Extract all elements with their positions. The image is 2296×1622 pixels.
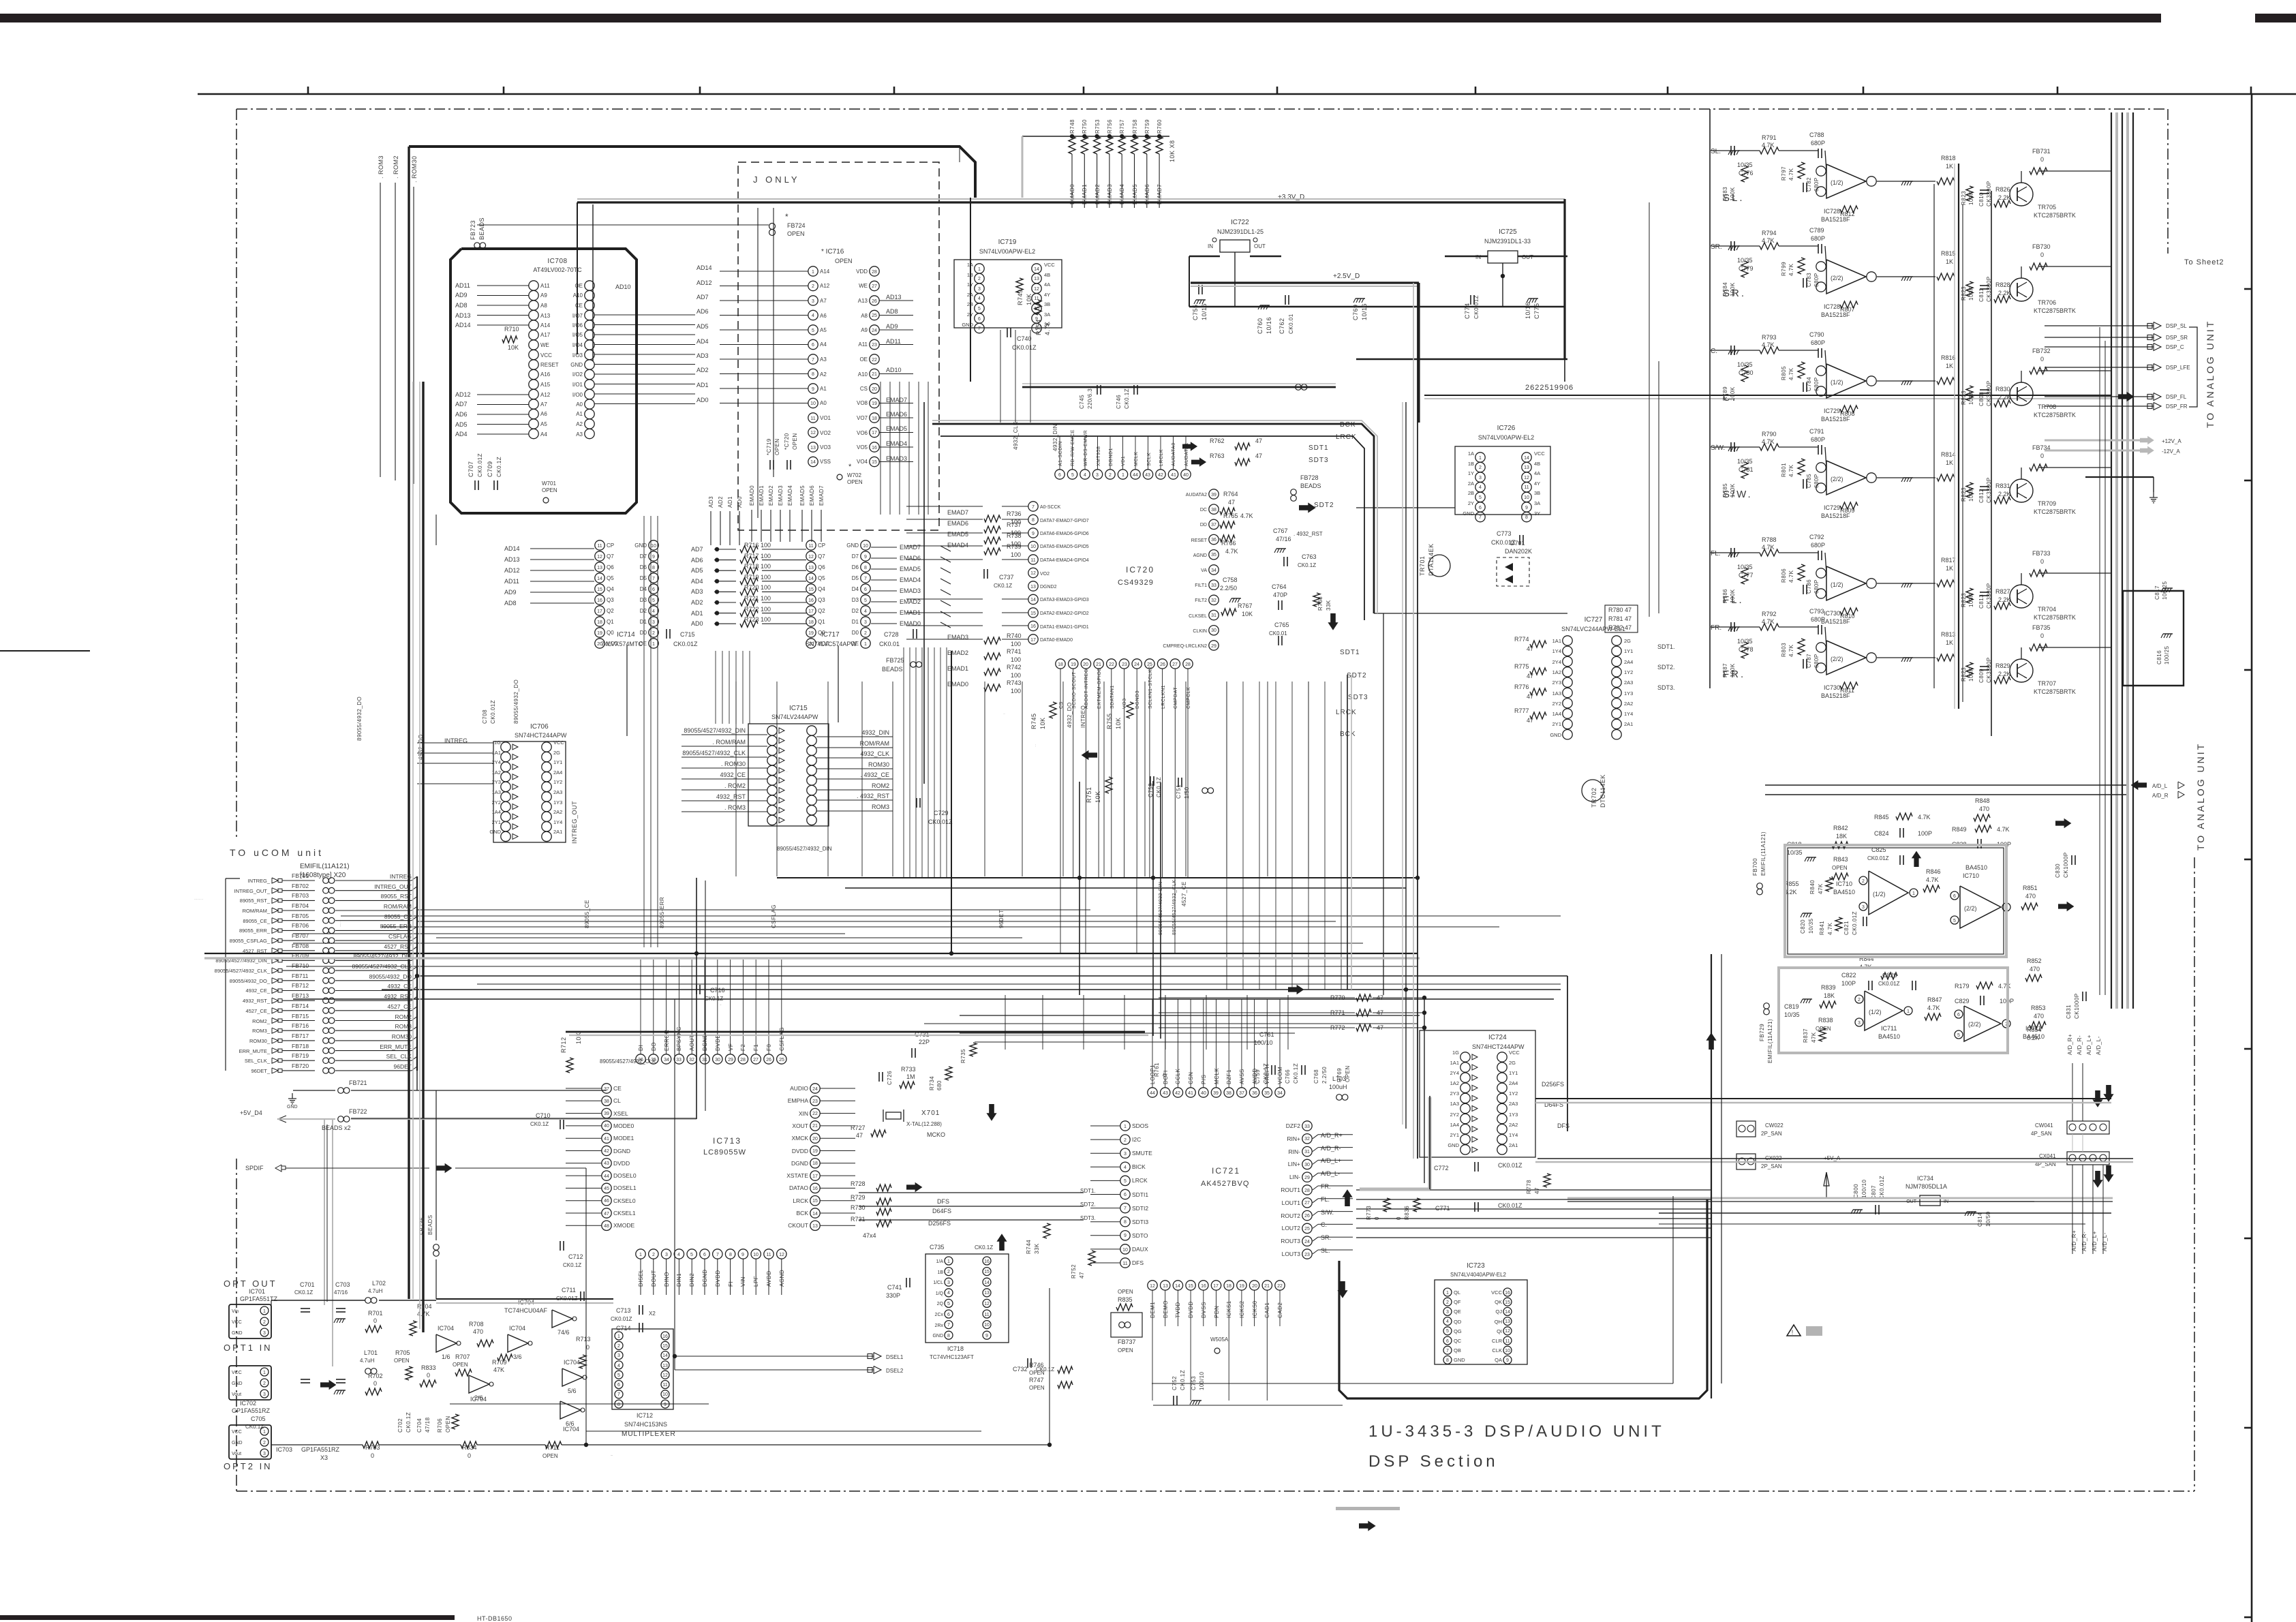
svg-text:A3: A3	[576, 431, 583, 438]
svg-text:IC706: IC706	[530, 723, 549, 731]
svg-text:R730: R730	[851, 1204, 866, 1211]
svg-text:Q7: Q7	[818, 553, 825, 560]
svg-text:R830: R830	[1995, 386, 2010, 393]
svg-text:AD11: AD11	[455, 282, 470, 289]
svg-text:8: 8	[947, 1334, 950, 1338]
svg-text:DO: DO	[651, 1042, 657, 1051]
svg-text:2A4: 2A4	[553, 769, 562, 776]
svg-text:OPEN: OPEN	[1832, 865, 1848, 871]
svg-text:BA4510: BA4510	[1833, 889, 1855, 896]
svg-text:22: 22	[1109, 662, 1114, 667]
svg-text:OPEN: OPEN	[542, 1453, 558, 1459]
svg-text:C712: C712	[568, 1253, 583, 1260]
svg-text:10: 10	[863, 544, 868, 549]
svg-text:ROUT2: ROUT2	[1281, 1212, 1300, 1219]
svg-text:FB701: FB701	[292, 872, 309, 879]
svg-text:DI: DI	[638, 1045, 644, 1051]
svg-text:OPT2 IN: OPT2 IN	[224, 1461, 273, 1471]
svg-text:AVSS: AVSS	[1239, 1069, 1245, 1084]
svg-text:Q0: Q0	[607, 630, 614, 636]
svg-text:16: 16	[662, 1334, 668, 1339]
svg-text:AD2: AD2	[691, 599, 703, 606]
svg-text:DOUT: DOUT	[651, 1270, 657, 1287]
svg-text:AD11: AD11	[504, 578, 519, 585]
svg-text:R745: R745	[1030, 713, 1037, 729]
svg-text:100/25: 100/25	[2164, 645, 2170, 664]
svg-text:41: 41	[1188, 1091, 1193, 1096]
svg-text:R823: R823	[1961, 391, 1967, 405]
svg-text:FR.: FR.	[1321, 1183, 1331, 1190]
svg-text:AD7: AD7	[455, 401, 468, 408]
svg-text:OPEN: OPEN	[1029, 1370, 1045, 1376]
svg-text:DSP_FL: DSP_FL	[2166, 394, 2187, 400]
svg-text:36: 36	[1252, 1091, 1257, 1096]
svg-text:A/D_L+: A/D_L+	[2086, 1035, 2092, 1055]
svg-text:17: 17	[1030, 638, 1036, 643]
svg-text:1A4: 1A4	[1552, 711, 1561, 717]
svg-text:R776: R776	[1514, 684, 1529, 690]
svg-text:44: 44	[1133, 473, 1138, 478]
svg-text:A13: A13	[858, 298, 868, 304]
svg-text:SN74LV00APW-EL2: SN74LV00APW-EL2	[1478, 434, 1534, 441]
svg-text:BCK: BCK	[1340, 421, 1356, 429]
svg-text:DEMO: DEMO	[1163, 1300, 1169, 1318]
svg-text:EMAD4: EMAD4	[787, 485, 793, 506]
svg-text:R727: R727	[851, 1124, 866, 1131]
svg-text:11: 11	[597, 544, 602, 549]
svg-text:4.7K: 4.7K	[1762, 341, 1775, 348]
svg-text:1: 1	[812, 270, 814, 275]
svg-text:A10: A10	[573, 292, 583, 299]
svg-text:IC728: IC728	[1824, 303, 1840, 310]
svg-text:IC720: IC720	[1126, 565, 1154, 575]
svg-text:89055/4527/4932_CLK: 89055/4527/4932_CLK	[1172, 879, 1177, 935]
svg-text:4.7K: 4.7K	[1788, 263, 1794, 276]
svg-text:R815: R815	[1941, 250, 1956, 257]
svg-text:11: 11	[808, 544, 813, 549]
svg-text:33K: 33K	[1034, 1243, 1040, 1254]
svg-text:SN74LV4040APW-EL2: SN74LV4040APW-EL2	[1450, 1272, 1507, 1278]
svg-text:10: 10	[662, 1392, 668, 1397]
svg-text:AGND: AGND	[779, 1270, 785, 1287]
svg-text:30: 30	[1211, 628, 1216, 633]
svg-text:XIN: XIN	[799, 1110, 808, 1117]
svg-text:12: 12	[662, 1373, 668, 1378]
svg-text:Q1: Q1	[818, 619, 825, 625]
svg-text:OPEN: OPEN	[792, 433, 798, 450]
svg-text:ROM30: ROM30	[868, 761, 889, 768]
svg-text:Vin: Vin	[232, 1309, 239, 1314]
svg-text:89055/4932_DO: 89055/4932_DO	[369, 973, 412, 980]
svg-text:74/6: 74/6	[557, 1329, 570, 1336]
svg-text:R739: R739	[1007, 543, 1022, 550]
svg-text:SEL_CLK_: SEL_CLK_	[245, 1058, 271, 1064]
svg-text:GND: GND	[1550, 732, 1561, 738]
svg-text:3: 3	[1479, 476, 1482, 480]
svg-text:CLKSEL: CLKSEL	[1189, 614, 1207, 619]
svg-text:AD10: AD10	[615, 284, 631, 290]
svg-text:18: 18	[1058, 662, 1063, 667]
svg-text:10: 10	[651, 544, 656, 549]
svg-text:15: 15	[872, 460, 877, 465]
svg-text:D4: D4	[640, 586, 647, 592]
svg-text:AD3: AD3	[697, 352, 709, 359]
svg-text:8: 8	[812, 372, 814, 377]
svg-text:15: 15	[1030, 611, 1036, 616]
svg-text:10: 10	[1122, 1248, 1128, 1253]
svg-text:RESET: RESET	[1191, 538, 1208, 543]
svg-text:C767: C767	[1273, 527, 1288, 534]
svg-text:CK0.01Z: CK0.01Z	[1879, 1176, 1885, 1199]
svg-text:23: 23	[1122, 662, 1127, 667]
svg-text:FB711: FB711	[292, 973, 309, 979]
svg-text:100P: 100P	[1841, 980, 1856, 987]
svg-text:R788: R788	[1762, 536, 1777, 543]
svg-text:R705: R705	[395, 1349, 410, 1356]
svg-text:3: 3	[1858, 1021, 1861, 1026]
svg-text:32: 32	[689, 1058, 694, 1062]
svg-text:QA: QA	[1495, 1357, 1502, 1363]
svg-text:R790: R790	[1762, 431, 1777, 438]
svg-text:SL.: SL.	[1723, 192, 1745, 204]
svg-text:AD13: AD13	[504, 556, 520, 563]
svg-text:9: 9	[1124, 1234, 1127, 1238]
svg-text:R793: R793	[1762, 334, 1777, 341]
svg-text:+5V_D4: +5V_D4	[240, 1110, 262, 1116]
svg-text:4: 4	[677, 1253, 680, 1257]
svg-text:D256FS: D256FS	[928, 1220, 951, 1227]
svg-text:10/35: 10/35	[1737, 638, 1753, 645]
svg-text:AUDATA0: AUDATA0	[1172, 442, 1176, 466]
svg-text:96DET_: 96DET_	[251, 1068, 270, 1074]
svg-text:R823: R823	[1961, 286, 1967, 301]
svg-text:0: 0	[373, 1380, 377, 1387]
svg-text:AD1: AD1	[727, 496, 733, 508]
svg-text:SDT2: SDT2	[1314, 502, 1334, 509]
svg-text:AD12: AD12	[504, 567, 520, 574]
svg-text:R829: R829	[1995, 662, 2010, 669]
svg-text:C789: C789	[1809, 227, 1824, 234]
svg-text:2Cx: 2Cx	[935, 1313, 944, 1317]
svg-text:6: 6	[864, 587, 867, 592]
svg-text:IC723: IC723	[1467, 1262, 1485, 1270]
svg-text:R735: R735	[960, 1049, 966, 1063]
svg-text:VCC: VCC	[1044, 262, 1055, 268]
svg-text:MCLK: MCLK	[1214, 1068, 1220, 1084]
svg-text:A8: A8	[861, 313, 868, 319]
svg-text:17: 17	[597, 609, 602, 614]
svg-text:38: 38	[1226, 1091, 1231, 1096]
svg-text:C771: C771	[1435, 1205, 1450, 1212]
svg-text:13: 13	[808, 566, 814, 570]
svg-text:C760: C760	[1257, 318, 1264, 334]
svg-text:4.7K: 4.7K	[1762, 544, 1775, 551]
svg-text:*: *	[785, 212, 789, 221]
svg-text:2: 2	[812, 284, 814, 289]
svg-text:ROM2: ROM2	[872, 782, 889, 789]
svg-text:BEADS x2: BEADS x2	[322, 1124, 351, 1131]
svg-text:2: 2	[263, 1441, 266, 1445]
svg-text:DVDD: DVDD	[715, 1034, 721, 1051]
svg-text:3: 3	[1096, 473, 1099, 478]
svg-text:A/D_L+: A/D_L+	[1321, 1157, 1341, 1164]
svg-text:AD4: AD4	[691, 578, 703, 585]
svg-text:(2/2): (2/2)	[1831, 476, 1843, 483]
svg-text:4.7K: 4.7K	[1788, 464, 1794, 477]
svg-text:R736: R736	[1007, 510, 1022, 517]
svg-text:4932_CE: 4932_CE	[388, 983, 412, 990]
svg-text:R755: R755	[1106, 713, 1113, 729]
svg-text:CK0.1Z: CK0.1Z	[530, 1121, 549, 1127]
svg-text:0: 0	[371, 1452, 374, 1459]
svg-text:16: 16	[984, 1259, 990, 1264]
svg-text:AD4: AD4	[455, 431, 468, 438]
svg-text:LOUT3: LOUT3	[1282, 1251, 1301, 1257]
svg-text:0: 0	[373, 1317, 377, 1324]
svg-text:100: 100	[1011, 688, 1021, 694]
svg-text:10: 10	[984, 1323, 990, 1328]
svg-text:14: 14	[808, 577, 814, 581]
svg-text:A9: A9	[861, 327, 868, 333]
svg-text:0: 0	[2040, 156, 2044, 163]
svg-text:FB722: FB722	[349, 1108, 367, 1115]
svg-text:4932_RST: 4932_RST	[716, 793, 746, 800]
svg-text:WR-DS-EMWR: WR-DS-EMWR	[1084, 430, 1088, 466]
svg-text:DSP_SL: DSP_SL	[2166, 323, 2187, 329]
svg-text:Q4: Q4	[818, 586, 825, 592]
svg-text:C817: C817	[2154, 585, 2160, 600]
svg-text:EMAD6: EMAD6	[900, 555, 921, 562]
svg-text:AD12: AD12	[697, 279, 712, 286]
svg-text:10: 10	[1524, 495, 1529, 500]
svg-text:14: 14	[662, 1353, 668, 1358]
svg-text:42: 42	[604, 1149, 609, 1154]
svg-text:VO6: VO6	[857, 430, 868, 436]
svg-text:13: 13	[662, 1364, 668, 1368]
svg-text:3: 3	[665, 1253, 668, 1257]
svg-text:8: 8	[729, 1253, 732, 1257]
svg-text:RIN-: RIN-	[1289, 1148, 1301, 1155]
svg-text:VCC: VCC	[1491, 1289, 1502, 1296]
svg-text:R758: R758	[1132, 119, 1138, 134]
svg-text:GND: GND	[1454, 1357, 1465, 1363]
svg-text:R828: R828	[1995, 281, 2010, 288]
svg-text:14: 14	[597, 577, 602, 581]
svg-text:21: 21	[1096, 662, 1101, 667]
svg-text:25: 25	[1304, 1227, 1310, 1231]
svg-text:ROM3_: ROM3_	[252, 1028, 271, 1034]
svg-text:WE: WE	[540, 342, 549, 348]
svg-text:IC721: IC721	[1212, 1166, 1240, 1176]
svg-text:FB729: FB729	[1759, 1024, 1765, 1041]
svg-text:R775: R775	[1514, 663, 1529, 670]
svg-text:R841: R841	[1819, 921, 1825, 935]
svg-text:5/6: 5/6	[568, 1388, 577, 1394]
svg-text:1: 1	[617, 1334, 620, 1339]
svg-text:NJM7805DL1A: NJM7805DL1A	[1905, 1183, 1947, 1190]
svg-text:OPEN: OPEN	[453, 1362, 468, 1368]
svg-text:SDT1.: SDT1.	[1080, 1188, 1096, 1194]
svg-text:R746: R746	[1029, 1362, 1044, 1368]
svg-text:ICKS0: ICKS0	[1252, 1300, 1258, 1318]
svg-text:R744: R744	[1026, 1240, 1032, 1254]
svg-text:A0-SCCK: A0-SCCK	[1040, 505, 1061, 510]
svg-text:DSP_FR: DSP_FR	[2166, 403, 2188, 410]
svg-text:R777: R777	[1514, 707, 1529, 714]
svg-text:1: 1	[947, 1259, 950, 1264]
svg-text:DSEL2: DSEL2	[886, 1368, 904, 1374]
svg-text:TO ANALOG UNIT: TO ANALOG UNIT	[2195, 742, 2206, 851]
svg-text:AD3: AD3	[708, 496, 714, 508]
svg-text:VF: VF	[728, 1043, 734, 1051]
svg-text:FL.: FL.	[1321, 1196, 1330, 1203]
svg-text:FB700: FB700	[1752, 858, 1758, 876]
svg-text:1A: 1A	[1468, 450, 1474, 457]
svg-text:6: 6	[1058, 473, 1061, 478]
svg-text:FB703: FB703	[292, 892, 309, 899]
svg-text:R743: R743	[1007, 679, 1022, 686]
svg-text:R728: R728	[851, 1180, 866, 1187]
svg-text:Q7: Q7	[607, 553, 614, 560]
svg-text:A7: A7	[540, 401, 547, 408]
svg-text:ROM/RAM: ROM/RAM	[384, 903, 412, 910]
svg-text:CK0.1Z: CK0.1Z	[496, 457, 502, 477]
svg-text:D5: D5	[852, 575, 859, 581]
svg-text:C704: C704	[416, 1418, 423, 1433]
svg-text:HT-DB1650: HT-DB1650	[477, 1615, 512, 1622]
svg-text:19: 19	[1239, 1284, 1244, 1289]
svg-text:2Y1: 2Y1	[1450, 1132, 1459, 1138]
svg-text:R752: R752	[1071, 1264, 1077, 1279]
svg-text:C800: C800	[1853, 1184, 1859, 1198]
svg-text:R773: R773	[1366, 1206, 1372, 1220]
svg-text:17: 17	[872, 431, 877, 435]
svg-text:R731: R731	[851, 1216, 866, 1223]
svg-text:C705: C705	[251, 1416, 266, 1422]
svg-text:22: 22	[1277, 1284, 1283, 1289]
svg-text:SN74HC153NS: SN74HC153NS	[624, 1421, 667, 1428]
svg-text:DVSS: DVSS	[1201, 1302, 1207, 1318]
svg-text:FB702: FB702	[292, 883, 309, 889]
svg-text:13: 13	[984, 1291, 990, 1296]
svg-text:A11: A11	[540, 283, 550, 289]
svg-text:LRCK: LRCK	[1132, 1177, 1148, 1184]
svg-text:IC718: IC718	[947, 1345, 964, 1352]
svg-text:96DET: 96DET	[998, 910, 1005, 928]
svg-text:470P: 470P	[1273, 592, 1287, 598]
svg-text:VCC: VCC	[232, 1430, 242, 1435]
svg-text:VCC: VCC	[232, 1320, 242, 1325]
svg-text:4.7K: 4.7K	[1927, 1005, 1940, 1011]
svg-text:47: 47	[1527, 645, 1533, 652]
svg-text:KTC2875BRTK: KTC2875BRTK	[2034, 614, 2076, 621]
svg-text:1Y1: 1Y1	[1624, 648, 1633, 654]
svg-text:R179: R179	[1955, 983, 1970, 990]
svg-text:1Y4: 1Y4	[1509, 1132, 1518, 1138]
svg-text:22: 22	[872, 358, 877, 363]
svg-text:2Q: 2Q	[937, 1302, 944, 1306]
svg-text:ROUT3: ROUT3	[1281, 1238, 1300, 1244]
svg-text:29: 29	[1304, 1176, 1310, 1180]
svg-text:5: 5	[1957, 1033, 1960, 1038]
svg-text:S/W.: S/W.	[1321, 1209, 1334, 1216]
svg-text:10/50: 10/50	[1985, 1211, 1991, 1227]
svg-text:3Y: 3Y	[1534, 510, 1540, 517]
svg-text:ROM3: ROM3	[395, 1023, 412, 1030]
svg-text:2: 2	[652, 1253, 655, 1257]
svg-text:1Y2: 1Y2	[1624, 669, 1633, 675]
svg-text:1: 1	[652, 642, 655, 647]
svg-text:1Y2: 1Y2	[553, 779, 562, 785]
svg-text:89055_RST_: 89055_RST_	[240, 898, 271, 904]
svg-text:OPEN: OPEN	[847, 479, 863, 485]
svg-text:100P: 100P	[1918, 830, 1932, 837]
svg-text:AUDIO: AUDIO	[790, 1085, 808, 1092]
svg-text:A12: A12	[540, 392, 551, 398]
svg-text:+12V_A: +12V_A	[2162, 438, 2182, 444]
svg-text:IC730: IC730	[1824, 684, 1840, 691]
svg-text:14: 14	[1030, 598, 1036, 602]
svg-text:SPDIF: SPDIF	[245, 1165, 264, 1172]
svg-text:DTA114EK: DTA114EK	[1428, 543, 1435, 576]
svg-text:4932_DIN: 4932_DIN	[861, 729, 889, 736]
svg-text:C758: C758	[1223, 577, 1238, 583]
svg-text:16: 16	[872, 446, 877, 450]
svg-text:A/D_R-: A/D_R-	[2077, 1035, 2083, 1055]
svg-text:CS49329: CS49329	[1118, 579, 1154, 587]
svg-text:R838: R838	[1818, 1017, 1833, 1024]
svg-text:C811: C811	[1978, 288, 1985, 302]
svg-text:IC704: IC704	[509, 1325, 525, 1332]
svg-text:RD-R/W-EMCE: RD-R/W-EMCE	[1071, 429, 1075, 466]
svg-text:R712: R712	[560, 1037, 567, 1053]
svg-text:R816: R816	[1941, 354, 1956, 361]
svg-text:GND: GND	[846, 542, 859, 549]
svg-text:3: 3	[263, 1331, 266, 1336]
svg-text:89055-ERR: 89055-ERR	[659, 897, 665, 928]
svg-text:1A2: 1A2	[1552, 669, 1561, 675]
svg-text:CKSEL1: CKSEL1	[613, 1210, 636, 1216]
svg-text:15: 15	[597, 587, 602, 592]
svg-text:32: 32	[1211, 598, 1216, 603]
svg-text:OPEN: OPEN	[394, 1358, 410, 1364]
svg-text:4: 4	[947, 1291, 950, 1296]
svg-text:OPEN: OPEN	[1118, 1289, 1133, 1295]
svg-text:10/35: 10/35	[1737, 458, 1753, 465]
svg-text:I/O0: I/O0	[572, 392, 583, 398]
svg-text:BEADS: BEADS	[427, 1214, 433, 1235]
svg-text:R852: R852	[2027, 958, 2042, 964]
svg-text:3: 3	[1446, 1310, 1449, 1315]
svg-text:4.7K: 4.7K	[1225, 548, 1238, 555]
svg-text:10K: 10K	[1039, 717, 1046, 729]
svg-text:GP1FA551TZ: GP1FA551TZ	[240, 1296, 278, 1302]
svg-text:AD14: AD14	[697, 264, 712, 271]
svg-text:7: 7	[1446, 1349, 1449, 1353]
svg-text:1K: 1K	[1946, 565, 1953, 572]
svg-text:3: 3	[978, 287, 981, 292]
svg-text:C741: C741	[887, 1284, 902, 1291]
svg-text:OPEN: OPEN	[1118, 1347, 1133, 1353]
svg-text:R803: R803	[1781, 643, 1787, 657]
svg-text:3: 3	[263, 1392, 266, 1397]
svg-text:2: 2	[1858, 998, 1861, 1003]
svg-text:R734: R734	[929, 1076, 935, 1090]
svg-text:(1/2): (1/2)	[1831, 379, 1843, 386]
svg-text:EMAD6: EMAD6	[886, 411, 907, 418]
svg-text:100: 100	[1011, 656, 1021, 663]
svg-text:3A: 3A	[1044, 311, 1050, 318]
